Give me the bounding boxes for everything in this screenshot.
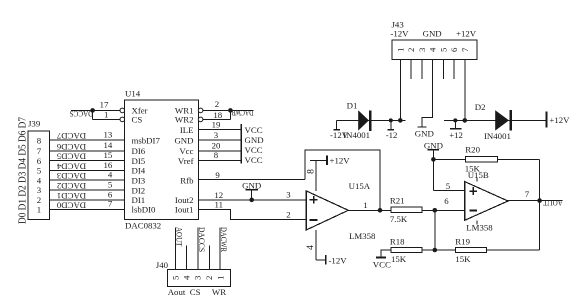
-12 tick on rail — [390, 120, 392, 129]
svg-text:DACCS: DACCS — [197, 227, 207, 252]
power tick bar — [240, 124, 242, 164]
wire node to R19 left — [435, 249, 456, 251]
-12V power tick left — [336, 120, 338, 129]
svg-text:VCC: VCC — [245, 145, 263, 155]
svg-text:4: 4 — [181, 275, 191, 280]
resistor R19 body — [455, 247, 486, 252]
svg-text:DACD0: DACD0 — [56, 200, 86, 210]
wire Iout1 — [198, 209, 306, 219]
svg-text:6: 6 — [37, 156, 42, 166]
DAC U14 body — [125, 100, 199, 220]
WR2 inversion bubble — [198, 117, 203, 122]
connector J40 body — [168, 269, 231, 286]
WR1 inversion bubble — [198, 108, 203, 113]
svg-text:7: 7 — [460, 47, 470, 52]
U14 right pin names — [174, 106, 194, 215]
wire J39.4 to U14 DI3 — [49, 179, 124, 181]
wire J40 pin3 DACCS — [197, 228, 199, 270]
Xfer inversion bubble — [120, 108, 125, 113]
svg-text:D2: D2 — [475, 102, 486, 112]
svg-text:D1: D1 — [347, 100, 358, 110]
svg-text:11: 11 — [215, 200, 223, 210]
op-amp U15B body — [465, 182, 508, 221]
U15B bottom stub — [476, 220, 478, 224]
svg-text:DACD3: DACD3 — [56, 171, 86, 181]
svg-text:7: 7 — [525, 189, 530, 199]
svg-text:LM358: LM358 — [349, 231, 376, 241]
svg-text:4: 4 — [428, 47, 438, 52]
svg-text:5: 5 — [438, 47, 448, 52]
svg-text:AOUT: AOUT — [174, 227, 184, 247]
junction feedback/output — [378, 208, 383, 213]
svg-text:Vcc: Vcc — [179, 146, 193, 156]
wire R21 to node 6 — [422, 209, 435, 211]
node 6 vertical wire — [434, 210, 436, 250]
U15A pin8 stub — [315, 160, 317, 191]
junction output/feedback — [537, 198, 542, 203]
wire WR2 — [203, 118, 231, 120]
resistor R21 body — [391, 207, 422, 212]
net label DACWR (flipped, with bar) — [230, 109, 253, 111]
U15A minus input marker — [310, 219, 318, 221]
svg-text:17: 17 — [100, 100, 109, 110]
svg-text:1: 1 — [37, 204, 41, 214]
svg-text:ILE: ILE — [180, 125, 194, 135]
svg-text:GND: GND — [174, 136, 193, 146]
svg-text:DI2: DI2 — [132, 185, 146, 195]
svg-text:1: 1 — [363, 200, 367, 210]
svg-text:4: 4 — [305, 245, 316, 250]
U15B top stub — [476, 178, 478, 182]
svg-text:GND: GND — [245, 135, 264, 145]
svg-text:2: 2 — [215, 99, 219, 109]
svg-text:5: 5 — [108, 180, 113, 190]
svg-text:5: 5 — [170, 275, 180, 280]
wire GND node to U15B plus (pin5) — [433, 189, 464, 191]
wire node6 to U15B minus — [435, 209, 465, 211]
junction node 6 top — [433, 208, 438, 213]
svg-text:Vref: Vref — [178, 156, 194, 166]
svg-text:9: 9 — [215, 170, 220, 180]
svg-text:VCC: VCC — [373, 260, 391, 270]
wire ILE — [198, 129, 241, 131]
junction GND/R20 — [431, 157, 436, 162]
+12V rail wire — [444, 119, 546, 121]
wire U15B output — [508, 200, 563, 202]
svg-text:7: 7 — [37, 146, 42, 156]
+12V power tick right — [545, 111, 547, 127]
wire R18 right to node — [422, 249, 435, 251]
wire GND pin3 — [198, 139, 241, 141]
svg-text:D0 D1 D2 D3 D4 D5 D6 D7: D0 D1 D2 D3 D4 D5 D6 D7 — [17, 117, 28, 224]
VCC power tick at R18 — [376, 257, 386, 259]
svg-text:DI3: DI3 — [132, 175, 146, 185]
svg-text:DACD2: DACD2 — [57, 181, 86, 191]
+12 tick on rail — [454, 120, 456, 128]
J43 pin2 stub — [410, 60, 412, 80]
svg-text:1: 1 — [395, 48, 405, 52]
U15A pin4 stub — [315, 230, 317, 260]
svg-text:18: 18 — [213, 110, 222, 120]
svg-text:CS: CS — [132, 115, 143, 125]
svg-text:DI5: DI5 — [132, 156, 146, 166]
svg-text:6: 6 — [444, 196, 449, 206]
J40 pin numbers 5-1 (rotated) — [170, 275, 225, 280]
svg-text:8: 8 — [214, 150, 219, 160]
diode D2 — [495, 110, 509, 130]
wire Rfb — [198, 178, 305, 180]
svg-text:Aout: Aout — [168, 287, 186, 297]
wire J39.3 to U14 DI2 — [49, 189, 124, 191]
svg-text:VCC: VCC — [245, 125, 263, 135]
svg-text:DACD6: DACD6 — [56, 142, 86, 152]
-12V rail wire — [337, 119, 406, 121]
svg-text:R20: R20 — [465, 145, 480, 155]
svg-text:Iout1: Iout1 — [175, 205, 194, 215]
junction at WR tie — [228, 108, 233, 113]
svg-text:WR2: WR2 — [175, 115, 194, 125]
junction node 6 bottom — [433, 248, 438, 253]
svg-text:5: 5 — [446, 181, 451, 191]
J43 pin6 stub — [453, 60, 455, 80]
svg-text:J40: J40 — [156, 260, 169, 270]
svg-text:-12: -12 — [386, 130, 398, 140]
svg-text:GND: GND — [423, 29, 442, 39]
connector J39 pin numbers 8..1 — [37, 135, 42, 214]
svg-text:Rfb: Rfb — [180, 175, 194, 185]
svg-text:R18: R18 — [390, 236, 405, 246]
J43 pin3 stub — [421, 60, 423, 80]
svg-text:16: 16 — [104, 160, 113, 170]
-12V power tick at U15A — [316, 259, 326, 261]
CS inversion bubble — [120, 117, 125, 122]
svg-text:15K: 15K — [455, 254, 471, 264]
wire to Xfer pin — [93, 109, 120, 111]
wire Vref pin8 — [198, 160, 241, 162]
U15B minus input marker — [469, 209, 477, 211]
svg-text:IN4001: IN4001 — [343, 130, 370, 140]
J43 pin numbers 1-7 (rotated) — [395, 47, 470, 52]
svg-text:2: 2 — [204, 276, 214, 280]
svg-text:J39: J39 — [28, 119, 41, 129]
svg-text:DACD5: DACD5 — [56, 152, 86, 162]
svg-text:20: 20 — [212, 140, 221, 150]
J40 pin2 stub — [209, 245, 211, 269]
wire J39.6 to U14 DI5 — [49, 160, 124, 162]
wire J39.5 to U14 DI4 — [49, 170, 124, 172]
svg-text:msbDI7: msbDI7 — [132, 136, 161, 146]
wire WR tie vertical — [229, 110, 231, 119]
wire Xfer net vertical — [92, 110, 94, 119]
junction at Xfer/CS tie — [90, 108, 95, 113]
svg-text:4: 4 — [108, 170, 113, 180]
wire R19 right to output branch — [486, 249, 539, 251]
svg-text:2: 2 — [286, 209, 290, 219]
svg-text:IN4001: IN4001 — [484, 131, 511, 141]
wire GND down to pin5 — [432, 150, 434, 191]
svg-text:LM358: LM358 — [466, 222, 493, 232]
svg-text:3: 3 — [417, 47, 427, 52]
svg-text:+12: +12 — [449, 130, 463, 140]
svg-text:R19: R19 — [455, 236, 470, 246]
resistor R20 body — [465, 157, 497, 162]
net label DACCS (flipped, with bar) — [71, 109, 93, 111]
junction pin7/rail — [463, 118, 468, 123]
svg-text:GND: GND — [415, 128, 434, 138]
svg-text:1: 1 — [215, 276, 225, 280]
svg-text:lsbDI0: lsbDI0 — [132, 205, 157, 215]
svg-text:+12V: +12V — [549, 115, 570, 125]
op-amp U15A body — [306, 191, 348, 230]
svg-text:WR: WR — [212, 287, 226, 297]
svg-text:U15A: U15A — [349, 181, 371, 191]
feedback wire Rfb to output — [305, 150, 380, 210]
svg-text:1: 1 — [104, 110, 108, 120]
junction -12 tick — [389, 118, 393, 122]
svg-text:U14: U14 — [125, 89, 141, 99]
J40 pin4 stub — [185, 245, 187, 269]
U14 left pin names — [132, 106, 161, 215]
wire R20 right — [497, 158, 539, 160]
wire J40 pin1 DACWR — [219, 228, 221, 270]
ground tick at J43 — [417, 126, 426, 128]
wire J39.8 to U14 msbDI7 — [49, 139, 124, 141]
svg-text:6: 6 — [449, 47, 459, 52]
wire Vcc pin20 — [198, 150, 241, 152]
svg-text:15K: 15K — [391, 254, 407, 264]
svg-text:R21: R21 — [390, 196, 405, 206]
resistor R18 body — [391, 247, 422, 252]
wire WR1 — [203, 109, 231, 111]
diode D1 — [358, 110, 369, 130]
svg-text:DACWR: DACWR — [231, 108, 254, 118]
connector J39 body — [28, 131, 49, 219]
junction GND to Iout2 — [249, 198, 254, 203]
svg-text:15: 15 — [104, 150, 113, 160]
svg-text:DAC0832: DAC0832 — [125, 220, 161, 230]
junction pin1/rail — [398, 118, 403, 123]
svg-text:DACD4: DACD4 — [56, 162, 86, 172]
svg-text:+12V: +12V — [456, 29, 477, 39]
wire to CS pin — [93, 118, 120, 120]
svg-text:-12V: -12V — [329, 255, 348, 265]
svg-text:-12V: -12V — [390, 29, 409, 39]
+12V power tick at U15A — [310, 159, 327, 161]
svg-text:8: 8 — [305, 169, 316, 174]
svg-text:DI6: DI6 — [132, 146, 146, 156]
svg-text:3: 3 — [37, 185, 42, 195]
wire J39.7 to U14 DI6 — [49, 150, 124, 152]
svg-text:DACWR: DACWR — [219, 227, 229, 252]
svg-text:13: 13 — [104, 130, 113, 140]
svg-text:DI4: DI4 — [132, 166, 146, 176]
svg-text:U15B: U15B — [468, 170, 489, 180]
svg-text:8: 8 — [37, 135, 42, 145]
connector J43 body — [392, 40, 477, 60]
wire GND node to R20 — [433, 158, 465, 160]
svg-text:7: 7 — [108, 199, 113, 209]
svg-text:CS: CS — [190, 287, 201, 297]
feedback vertical at right — [539, 159, 541, 250]
svg-text:3: 3 — [193, 275, 203, 280]
U15A plus input marker — [310, 199, 318, 201]
svg-text:3: 3 — [286, 190, 291, 200]
svg-text:+12V: +12V — [330, 156, 351, 166]
wire Iout2 to opamp + — [198, 199, 306, 201]
svg-text:2: 2 — [406, 48, 416, 52]
junction +12 tick — [453, 118, 457, 122]
wire J40 pin5 AOUT — [174, 228, 176, 270]
wire J43 pin4 to GND — [422, 60, 433, 128]
svg-text:VCC: VCC — [245, 155, 263, 165]
svg-text:7.5K: 7.5K — [390, 214, 408, 224]
wire J39.2 to U14 DI1 — [49, 199, 124, 201]
svg-text:AOUT: AOUT — [543, 198, 563, 208]
svg-text:DACD1: DACD1 — [57, 191, 86, 201]
svg-text:14: 14 — [104, 140, 113, 150]
svg-text:5: 5 — [37, 166, 42, 176]
J43 pin5 stub — [442, 60, 444, 80]
svg-text:DACCS: DACCS — [70, 109, 94, 119]
wire J43 pin1 to -12 rail — [399, 60, 401, 121]
wire U15A output — [348, 209, 391, 211]
wire R18 left to VCC — [381, 250, 391, 258]
svg-text:4: 4 — [37, 175, 42, 185]
U15B plus input marker — [469, 190, 477, 192]
svg-text:19: 19 — [212, 120, 221, 130]
svg-text:DACD7: DACD7 — [56, 131, 86, 141]
svg-text:3: 3 — [214, 130, 219, 140]
wire J43 pin7 to +12 rail — [464, 60, 466, 121]
wire J39.1 to U14 lsbDI0 — [49, 208, 124, 210]
